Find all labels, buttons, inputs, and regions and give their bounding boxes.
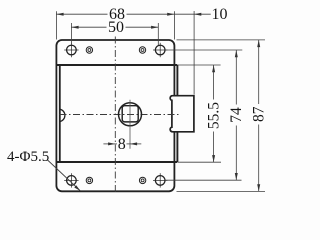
dimension 50	[71, 23, 158, 45]
svg-text:74: 74	[228, 107, 245, 123]
dimension 87	[177, 40, 266, 192]
hole top-right crosshair	[153, 43, 167, 57]
svg-text:87: 87	[251, 106, 268, 122]
case right edge	[176, 65, 178, 162]
case bottom edge	[56, 161, 177, 163]
hole bottom-left small	[86, 177, 92, 183]
waveguide tab	[170, 96, 194, 132]
center circle	[119, 103, 142, 126]
svg-text:55.5: 55.5	[206, 102, 223, 129]
left edge half hole	[59, 109, 65, 122]
dimension 74	[165, 50, 242, 180]
dimension 55.5	[178, 65, 221, 162]
case left edge	[59, 65, 61, 162]
vertical centerline	[114, 37, 116, 195]
dimension 8	[103, 143, 141, 145]
svg-text:4-Φ5.5: 4-Φ5.5	[7, 149, 49, 165]
leader 4-phi5.5	[47, 160, 80, 191]
square hole	[122, 106, 138, 122]
hole top-left crosshair	[64, 43, 78, 57]
dimension 68	[56, 11, 174, 39]
case top edge	[56, 64, 177, 66]
svg-text:50: 50	[108, 19, 124, 36]
hole top-left small	[86, 47, 92, 53]
dimension 10	[174, 11, 210, 95]
svg-text:8: 8	[118, 136, 126, 153]
text backgrounds	[108, 7, 127, 21]
svg-text:10: 10	[212, 6, 228, 23]
hole bottom-right crosshair	[153, 173, 167, 187]
horizontal centerline	[60, 114, 181, 116]
mounting plate outline	[56, 40, 174, 191]
hole bottom-left crosshair	[64, 173, 78, 187]
hole bottom-right small	[139, 177, 145, 183]
circle vertical centerline / dim-8 extension	[129, 100, 131, 149]
hole top-right small	[139, 47, 145, 53]
